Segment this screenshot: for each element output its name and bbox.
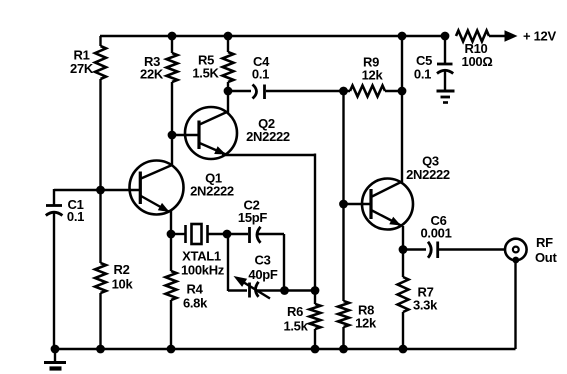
svg-text:0.1: 0.1 <box>414 67 431 82</box>
svg-text:0.001: 0.001 <box>420 226 451 241</box>
svg-text:1.5K: 1.5K <box>192 66 219 81</box>
wire Q2 collector vertical <box>227 91 229 113</box>
wire C1 top lead <box>53 189 55 206</box>
node ground rail R8 <box>339 345 348 354</box>
wire Q2 emitter column to R6 <box>314 154 316 305</box>
wire C2 right lead <box>258 233 284 235</box>
wire R2 bottom lead <box>99 293 101 349</box>
wire R7 bottom lead <box>402 312 404 349</box>
svg-text:R2: R2 <box>113 262 129 277</box>
node ground rail R2 <box>96 345 105 354</box>
wire second rail C4-R9 segment a <box>228 90 251 92</box>
node Q3 base <box>339 200 348 209</box>
svg-text:1.5k: 1.5k <box>283 319 308 334</box>
node ground rail R7 <box>399 345 408 354</box>
wire R1 to Q1 base node <box>99 79 101 263</box>
node top rail C5 <box>441 32 450 41</box>
wire C3 right to R6 node <box>256 289 315 291</box>
wire node A down to C3 <box>227 234 229 291</box>
node ground rail R6 <box>311 345 320 354</box>
wire R10 to arrow <box>489 35 506 37</box>
wire C5 top lead <box>444 36 446 64</box>
svg-text:10k: 10k <box>112 277 134 292</box>
capacitor C5 <box>414 53 453 82</box>
capacitor C1 <box>46 197 84 224</box>
svg-text:R6: R6 <box>287 304 303 319</box>
svg-text:12k: 12k <box>355 316 377 331</box>
wire node A to C2 <box>227 233 248 235</box>
node Q3 emitter C6 <box>399 245 408 254</box>
wire C3 left lead <box>228 289 247 291</box>
wire C2 right branch down <box>283 234 285 291</box>
svg-text:6.8k: 6.8k <box>183 296 208 311</box>
svg-text:100Ω: 100Ω <box>462 54 493 69</box>
resistor R1 <box>70 46 106 79</box>
svg-text:40pF: 40pF <box>248 267 278 282</box>
wire R5 top lead <box>227 36 229 52</box>
ground at C5 <box>437 72 455 103</box>
wire R1 column upper <box>99 36 101 46</box>
wire supply to R9 right node <box>401 36 403 92</box>
svg-text:100kHz: 100kHz <box>181 263 225 278</box>
supply arrow +12V <box>505 29 557 44</box>
capacitor C4 <box>252 54 270 99</box>
node R9 right <box>398 87 407 96</box>
resistor R8 <box>338 301 377 331</box>
wire second rail C4-R9 segment b <box>266 90 350 92</box>
node C3 right <box>280 286 289 295</box>
resistor R3 <box>140 53 177 82</box>
wire Q3 collector vertical <box>401 91 403 184</box>
wire R8 bottom lead <box>342 327 344 349</box>
crystal XTAL1 <box>181 224 225 278</box>
wire C1 bottom lead <box>53 214 55 350</box>
svg-text:2N2222: 2N2222 <box>246 129 290 144</box>
node ground rail R4 <box>167 345 176 354</box>
wire Q1 emitter to XTAL node <box>170 211 172 271</box>
wire top supply rail <box>100 35 445 37</box>
node top rail R5 <box>224 32 233 41</box>
svg-text:3.3k: 3.3k <box>413 298 438 313</box>
node ground rail C1 <box>51 345 60 354</box>
wire R4 bottom lead <box>170 300 172 349</box>
wire R9 right to node <box>385 90 402 92</box>
svg-text:+ 12V: + 12V <box>523 29 556 44</box>
svg-text:C3: C3 <box>254 253 270 268</box>
wire R3 to Q1 collector <box>171 82 173 166</box>
svg-text:RF: RF <box>536 235 553 250</box>
variable capacitor C3 <box>234 253 278 299</box>
wire Q2 base lead <box>172 134 199 136</box>
wire RF connector to ground rail <box>514 259 516 349</box>
wire Q3 base lead <box>343 203 371 205</box>
svg-text:15pF: 15pF <box>238 210 268 225</box>
wire C6 node to C6 <box>403 248 426 250</box>
node top rail Q3 branch <box>398 32 407 41</box>
svg-text:2N2222: 2N2222 <box>406 167 450 182</box>
wire Q3 emitter to C6 node <box>402 226 404 277</box>
wire R6 bottom lead <box>314 329 316 349</box>
svg-text:12k: 12k <box>362 68 384 83</box>
capacitor C2 <box>238 198 268 244</box>
wire R3 top lead <box>171 36 173 53</box>
svg-text:XTAL1: XTAL1 <box>182 249 221 264</box>
capacitor C6 <box>420 213 451 258</box>
resistor R7 <box>398 277 439 313</box>
node R9 left <box>339 87 348 96</box>
resistor R5 <box>192 52 233 82</box>
wire C6 to RF connector <box>439 248 505 250</box>
resistor R2 <box>95 262 133 293</box>
wire bottom ground rail <box>54 348 516 350</box>
svg-text:22K: 22K <box>140 67 164 82</box>
wire R5 bottom to C4 node <box>227 82 229 92</box>
ground bottom-left <box>44 349 66 369</box>
resistor R6 <box>283 304 320 334</box>
node top rail R3 <box>168 32 177 41</box>
resistor R9 <box>350 55 385 97</box>
wire Q2 emitter horizontal <box>222 154 315 156</box>
svg-text:R4: R4 <box>186 282 203 297</box>
node C4-R5-Q2 collector <box>224 87 233 96</box>
transistor Q3 <box>362 154 450 230</box>
node C3-R6 <box>311 286 320 295</box>
wire XTAL right lead <box>208 233 227 235</box>
resistor R10 <box>456 31 492 70</box>
wire R9 left column to R8 <box>342 91 344 301</box>
wire C1 to Q1 base <box>54 189 140 191</box>
transistor Q2 <box>185 107 290 159</box>
svg-text:0.1: 0.1 <box>67 209 84 224</box>
resistor R4 <box>166 271 209 311</box>
node A XTAL-C2 <box>223 230 232 239</box>
RF output jack <box>505 235 557 265</box>
node XTAL left <box>167 230 176 239</box>
svg-text:2N2222: 2N2222 <box>190 184 234 199</box>
svg-text:0.1: 0.1 <box>252 67 269 82</box>
svg-text:Out: Out <box>535 250 557 265</box>
transistor Q1 <box>130 161 234 215</box>
node Q2 base <box>168 131 177 140</box>
wire XTAL left lead <box>171 233 185 235</box>
node Q1 base <box>96 186 105 195</box>
svg-text:27K: 27K <box>70 61 94 76</box>
